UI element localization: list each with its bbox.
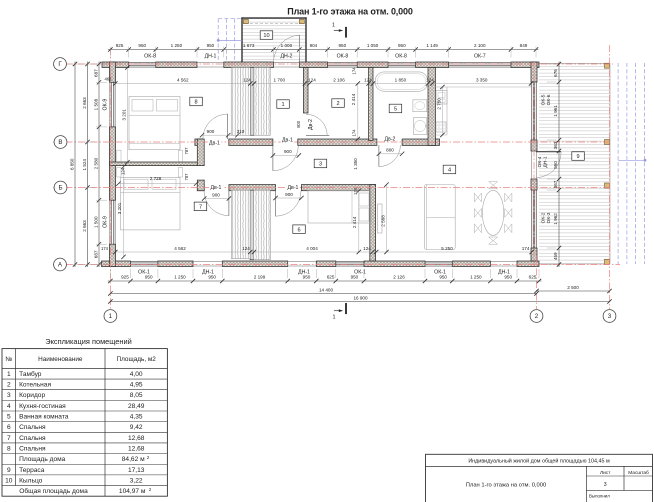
- svg-text:950: 950: [553, 161, 558, 169]
- svg-text:2 728: 2 728: [150, 176, 162, 181]
- axis bubble 2: [530, 310, 543, 323]
- svg-text:№: №: [5, 356, 12, 363]
- door Дв-2 boiler room: [306, 114, 329, 135]
- svg-text:4 562: 4 562: [177, 77, 189, 82]
- svg-text:ДН-1: ДН-1: [543, 156, 549, 167]
- svg-text:124: 124: [426, 77, 434, 82]
- svg-text:124: 124: [243, 77, 251, 82]
- svg-text:9: 9: [576, 154, 579, 160]
- svg-text:3: 3: [7, 392, 11, 399]
- svg-text:900: 900: [212, 192, 220, 197]
- washing machine: [413, 118, 427, 135]
- wall centreline axis right wall: [533, 62, 535, 266]
- svg-text:174: 174: [352, 129, 357, 137]
- svg-text:2 414: 2 414: [352, 216, 357, 228]
- svg-text:310: 310: [237, 129, 245, 134]
- dim 2 588 living: [380, 182, 388, 254]
- left wall window labels ОК-9: [103, 99, 109, 228]
- wall room7 east upper: [197, 139, 204, 166]
- svg-text:Масштаб: Масштаб: [628, 470, 649, 476]
- section mark 1 bottom: [333, 303, 347, 320]
- door ДН-1 bottom left: [193, 262, 222, 267]
- kitchen counter top: [435, 68, 530, 135]
- door Дв-1 vestibule to corridor: [273, 145, 298, 170]
- door Дв-1 room 7: [204, 191, 229, 216]
- built-in closet room 8: [231, 68, 250, 136]
- svg-text:1 250: 1 250: [470, 275, 482, 280]
- svg-text:787: 787: [184, 173, 189, 181]
- dim 2 750 kitchen: [436, 85, 444, 137]
- axis Г horizontal: [53, 63, 613, 65]
- svg-text:1: 1: [332, 23, 335, 29]
- corridor south wall: [197, 185, 375, 191]
- svg-text:904: 904: [310, 43, 318, 48]
- built-in closet room 7: [231, 190, 250, 259]
- terrace column top-right: [605, 63, 610, 68]
- small dims left wall: [101, 77, 112, 251]
- svg-text:ОК-9: ОК-9: [103, 216, 109, 228]
- axis А horizontal: [53, 264, 620, 266]
- svg-text:950: 950: [145, 275, 153, 280]
- room label 8: [190, 97, 203, 106]
- door Дв-2 bathroom: [379, 145, 401, 167]
- svg-text:3 350: 3 350: [476, 77, 488, 82]
- svg-text:ОК-6: ОК-6: [546, 94, 552, 105]
- svg-text:2 414: 2 414: [351, 93, 356, 105]
- svg-text:1: 1: [109, 313, 113, 320]
- svg-text:1 508: 1 508: [93, 98, 98, 110]
- svg-text:3: 3: [319, 162, 322, 168]
- svg-text:950: 950: [439, 275, 447, 280]
- svg-text:2 100: 2 100: [474, 43, 486, 48]
- drawing title: [287, 7, 413, 17]
- svg-text:Коридор: Коридор: [19, 392, 45, 399]
- wall room7 east lower: [197, 180, 204, 191]
- svg-text:Дв-1: Дв-1: [209, 140, 220, 146]
- svg-text:950: 950: [339, 43, 347, 48]
- svg-text:363: 363: [553, 141, 558, 149]
- closet partition wall upper: [250, 68, 254, 136]
- svg-text:900: 900: [284, 149, 292, 154]
- svg-text:124: 124: [242, 246, 250, 251]
- door ДН-1 to terrace swing: [536, 152, 561, 178]
- svg-text:950: 950: [398, 43, 406, 48]
- svg-text:6 850: 6 850: [69, 158, 74, 170]
- terrace column at axis В: [605, 140, 610, 145]
- closet partition wall lower: [250, 190, 254, 260]
- svg-text:7: 7: [7, 435, 11, 442]
- svg-text:ДН-2: ДН-2: [280, 54, 292, 60]
- svg-text:462: 462: [105, 77, 113, 82]
- svg-text:ОК-8: ОК-8: [395, 54, 407, 60]
- svg-text:900: 900: [207, 129, 215, 134]
- porch 10 floor: [241, 17, 306, 63]
- svg-text:174: 174: [352, 67, 357, 75]
- door Дв-1 room 6: [276, 191, 302, 217]
- wall bathroom east: [428, 68, 435, 146]
- svg-text:2 199: 2 199: [254, 275, 266, 280]
- svg-text:104,97 м: 104,97 м: [119, 488, 146, 495]
- svg-text:9,42: 9,42: [130, 424, 143, 431]
- dim 2 414 room 6: [352, 189, 361, 255]
- svg-text:1 050: 1 050: [367, 43, 379, 48]
- svg-text:10: 10: [263, 33, 269, 39]
- svg-text:1: 1: [333, 314, 336, 320]
- svg-text:1 700: 1 700: [274, 77, 286, 82]
- svg-text:3 201: 3 201: [121, 109, 126, 121]
- svg-text:174: 174: [101, 246, 109, 251]
- wall vestibule east: [304, 68, 309, 114]
- svg-text:800: 800: [296, 120, 301, 128]
- corridor north wall: [195, 139, 440, 145]
- door ОК-4/ДН-1 to terrace: [532, 151, 537, 179]
- dimension chain right wall openings: [547, 62, 561, 268]
- dim boiler door 800 vertical: [296, 120, 301, 128]
- exterior wall top (axis Г): [102, 62, 539, 68]
- svg-text:950: 950: [303, 275, 311, 280]
- svg-text:5: 5: [7, 414, 11, 421]
- entrance steps blue lines: [217, 19, 242, 62]
- dim 1 350 corridor: [353, 158, 358, 195]
- wall room6 east: [370, 185, 376, 261]
- room label 7: [194, 202, 207, 211]
- room label 4: [443, 165, 456, 174]
- axis 2 vertical: [536, 256, 538, 309]
- door ДН-1 bottom living: [490, 262, 517, 267]
- svg-text:4: 4: [7, 403, 11, 410]
- svg-text:Спальня: Спальня: [19, 435, 46, 442]
- svg-text:124: 124: [120, 167, 125, 175]
- bathtub: [375, 72, 428, 91]
- svg-text:Спальня: Спальня: [19, 424, 46, 431]
- svg-text:12,68: 12,68: [128, 445, 145, 452]
- room schedule table: [2, 337, 167, 496]
- window ОК-9 left lower: [110, 200, 115, 244]
- axis 3 vertical: [609, 45, 611, 309]
- svg-text:ОК-3: ОК-3: [546, 212, 552, 223]
- svg-text:3,22: 3,22: [130, 477, 143, 484]
- top wall opening labels: [144, 54, 486, 60]
- svg-text:Дв-1: Дв-1: [288, 185, 299, 191]
- svg-text:950: 950: [504, 275, 512, 280]
- svg-text:Индивидуальный жилой дом общей: Индивидуальный жилой дом общей площадью …: [468, 458, 610, 465]
- exterior wall bottom (axis А): [102, 261, 540, 267]
- svg-text:ОК-9: ОК-9: [103, 99, 109, 111]
- svg-text:849: 849: [520, 43, 528, 48]
- room label 5: [389, 104, 402, 113]
- svg-text:2 126: 2 126: [393, 275, 405, 280]
- svg-text:Дв-1: Дв-1: [282, 138, 293, 144]
- svg-text:950: 950: [138, 43, 146, 48]
- svg-text:625: 625: [327, 275, 335, 280]
- svg-text:3: 3: [608, 313, 612, 320]
- washbasin bathroom: [413, 100, 427, 112]
- svg-text:950: 950: [208, 275, 216, 280]
- svg-text:28,49: 28,49: [128, 403, 145, 410]
- svg-text:900: 900: [285, 192, 293, 197]
- svg-text:10: 10: [5, 477, 13, 484]
- svg-text:625: 625: [529, 275, 537, 280]
- window ОК-2/ОК-3 right: [531, 190, 536, 248]
- svg-text:Спальня: Спальня: [19, 445, 46, 452]
- window ОК-1 bottom room6: [336, 261, 364, 266]
- dim bathroom door 800: [377, 147, 405, 156]
- room label 6: [293, 225, 306, 234]
- svg-text:Экспликация помещений: Экспликация помещений: [45, 337, 131, 346]
- svg-text:Котельная: Котельная: [19, 382, 51, 389]
- svg-text:Ванная комната: Ванная комната: [19, 414, 69, 421]
- svg-text:ОК-4: ОК-4: [537, 156, 543, 167]
- svg-text:Площадь, м2: Площадь, м2: [117, 356, 157, 363]
- svg-text:4,95: 4,95: [130, 382, 143, 389]
- window ОК-9 left upper: [110, 82, 115, 127]
- section mark 1 top: [332, 23, 346, 38]
- svg-text:174: 174: [522, 246, 530, 251]
- room label 2: [332, 99, 345, 108]
- svg-text:17,13: 17,13: [128, 467, 145, 474]
- svg-text:367: 367: [553, 180, 558, 188]
- window ОК-8 top right: [388, 62, 416, 67]
- dimension 16 900: [108, 295, 612, 303]
- axis 1 vertical: [109, 48, 111, 309]
- dimension chain left windows: [93, 62, 107, 268]
- room label 1: [277, 100, 290, 109]
- dimension 2 500: [534, 285, 611, 293]
- bed room 6: [308, 191, 371, 223]
- svg-text:Дв-2: Дв-2: [308, 119, 314, 130]
- svg-text:1 500: 1 500: [93, 216, 98, 228]
- svg-text:2 750: 2 750: [436, 98, 441, 110]
- dim corridor door 900: [271, 149, 301, 158]
- room label 3: [314, 159, 327, 168]
- svg-text:9: 9: [7, 467, 11, 474]
- dimension 6 850 left: [69, 62, 83, 268]
- svg-text:950: 950: [351, 275, 359, 280]
- svg-text:В: В: [58, 139, 62, 146]
- porch inner dashed line: [245, 23, 303, 25]
- svg-text:4,35: 4,35: [130, 414, 143, 421]
- svg-text:925: 925: [121, 275, 129, 280]
- window ОК-8 top left: [129, 62, 156, 67]
- svg-text:Лист: Лист: [600, 470, 611, 476]
- nightstands room 7: [117, 168, 183, 178]
- svg-text:950: 950: [207, 43, 215, 48]
- nightstands room 8: [117, 150, 183, 161]
- svg-text:8: 8: [7, 445, 11, 452]
- svg-text:ДН-1: ДН-1: [205, 54, 217, 60]
- axis bubble А: [54, 258, 67, 271]
- svg-text:800: 800: [386, 147, 394, 152]
- svg-text:ОК-7: ОК-7: [474, 54, 486, 60]
- svg-text:1 350: 1 350: [353, 158, 358, 170]
- svg-text:4,00: 4,00: [130, 371, 143, 378]
- svg-text:4 562: 4 562: [174, 246, 186, 251]
- svg-text:1 524: 1 524: [82, 159, 87, 171]
- dining chairs: [474, 182, 512, 245]
- dimension chain bottom exterior: [108, 269, 542, 283]
- 10 porch label: [260, 31, 273, 40]
- svg-text:2: 2: [535, 313, 539, 320]
- svg-text:Наименование: Наименование: [38, 356, 83, 363]
- svg-text:6: 6: [7, 424, 11, 431]
- svg-text:4: 4: [448, 168, 451, 174]
- dim 2 414 boiler room: [351, 81, 360, 141]
- kitchen sink: [436, 91, 447, 105]
- svg-text:1: 1: [281, 102, 284, 108]
- terrace column bottom-right: [605, 259, 610, 264]
- room label 9 terrace: [572, 152, 585, 161]
- svg-text:124: 124: [308, 77, 316, 82]
- exterior wall left (axis 1): [110, 62, 116, 267]
- axis bubble 1: [104, 310, 117, 323]
- svg-text:676: 676: [553, 69, 558, 77]
- svg-text:5: 5: [394, 107, 397, 113]
- entrance door ДН-2 porch: [274, 63, 300, 68]
- window ОК-1 bottom living: [425, 261, 452, 266]
- svg-text:5 250: 5 250: [441, 246, 453, 251]
- interior vertical dim room 7: [117, 165, 126, 260]
- svg-text:Кухня-гостиная: Кухня-гостиная: [19, 403, 66, 410]
- svg-text:2: 2: [7, 382, 11, 389]
- svg-text:12,68: 12,68: [128, 435, 145, 442]
- axis Б horizontal: [53, 187, 611, 189]
- terrace edge blue guide lines: [618, 63, 646, 264]
- interior dim row lower: [113, 246, 534, 254]
- svg-text:687: 687: [93, 250, 98, 258]
- built-in closet vestibule: [254, 68, 270, 136]
- svg-text:8: 8: [194, 100, 197, 106]
- exterior wall right (axis 2): [531, 62, 537, 261]
- svg-text:2 588: 2 588: [380, 215, 385, 227]
- svg-text:ОК-8: ОК-8: [144, 54, 156, 60]
- svg-text:787: 787: [184, 147, 189, 155]
- svg-text:ОК-5: ОК-5: [541, 94, 547, 105]
- porch column left: [243, 19, 248, 23]
- window ОК-5/ОК-6 right: [531, 82, 536, 140]
- dimension chain top exterior: [108, 43, 539, 58]
- svg-text:16 900: 16 900: [353, 295, 367, 300]
- svg-text:1 250: 1 250: [174, 275, 186, 280]
- right wall opening labels: [537, 94, 552, 223]
- axis bubble В: [54, 136, 67, 149]
- window ОК-1 bottom room7: [131, 261, 158, 266]
- terrace 9 floor: [539, 63, 610, 264]
- svg-text:2 580: 2 580: [93, 157, 98, 169]
- dims 787: [184, 147, 189, 181]
- svg-text:7: 7: [199, 204, 202, 210]
- window ОК-8 top middle: [328, 62, 358, 67]
- svg-text:Тамбур: Тамбур: [19, 370, 42, 378]
- terrace column at axis Б: [605, 183, 610, 188]
- svg-text:1: 1: [7, 371, 11, 378]
- svg-text:3 201: 3 201: [117, 202, 122, 214]
- dim room6 door 900: [273, 192, 303, 200]
- sofa living room: [424, 185, 455, 250]
- svg-text:План 1-го этажа на отм. 0,000: План 1-го этажа на отм. 0,000: [466, 483, 546, 489]
- svg-text:Дв-1: Дв-1: [211, 185, 222, 191]
- dining table: [482, 190, 503, 235]
- interior door labels: [208, 119, 397, 191]
- dim room7 door 900: [202, 192, 231, 200]
- svg-text:1 250: 1 250: [171, 43, 183, 48]
- axis В horizontal: [53, 141, 611, 143]
- svg-text:459: 459: [553, 252, 558, 260]
- svg-text:6: 6: [297, 227, 300, 233]
- svg-text:Кыльцо: Кыльцо: [19, 477, 43, 484]
- built-in closet room 6: [254, 190, 271, 260]
- dims 174 boiler: [352, 67, 357, 137]
- svg-text:Общая площадь дома: Общая площадь дома: [19, 487, 88, 495]
- window ОК-7 top kitchen: [449, 62, 511, 67]
- dim room8 door 900/310: [200, 129, 245, 138]
- svg-text:1 673: 1 673: [243, 43, 255, 48]
- entrance door ДН-1 top: [197, 63, 224, 68]
- wall boiler-room east: [369, 68, 373, 141]
- axis bubble 3: [603, 310, 616, 323]
- svg-text:2 500: 2 500: [567, 285, 579, 290]
- dimension 14 400: [108, 288, 539, 296]
- dim 2 728 room 7: [116, 176, 198, 186]
- svg-text:2 663: 2 663: [82, 97, 87, 109]
- svg-text:2: 2: [336, 101, 339, 107]
- svg-text:2 106: 2 106: [333, 77, 345, 82]
- svg-text:1 962: 1 962: [553, 213, 558, 225]
- svg-text:ОК-2: ОК-2: [541, 212, 547, 223]
- svg-text:1 000: 1 000: [281, 43, 293, 48]
- svg-text:124: 124: [364, 77, 372, 82]
- porch column right: [299, 19, 304, 23]
- bed room 7: [121, 178, 181, 230]
- svg-text:1 961: 1 961: [553, 105, 558, 117]
- tv cabinet living room: [378, 204, 383, 233]
- svg-text:Выполнил: Выполнил: [589, 493, 610, 498]
- svg-text:687: 687: [93, 69, 98, 77]
- axis bubble Г: [54, 58, 67, 71]
- bottom wall opening labels: [138, 270, 510, 276]
- axis bubble Б: [54, 181, 67, 194]
- door ДН-2 porch swing: [274, 35, 300, 63]
- svg-text:Площадь дома: Площадь дома: [19, 456, 66, 463]
- title block stamp: [426, 454, 654, 502]
- svg-text:925: 925: [116, 43, 124, 48]
- svg-text:План 1-го этажа на отм. 0,000: План 1-го этажа на отм. 0,000: [287, 7, 413, 17]
- kitchen stove: [436, 122, 446, 132]
- svg-text:1 850: 1 850: [395, 77, 407, 82]
- svg-text:174: 174: [353, 187, 358, 195]
- bed room 8: [129, 97, 180, 150]
- door ДН-1 bottom room6: [288, 262, 317, 267]
- svg-text:Дв-2: Дв-2: [385, 136, 396, 142]
- svg-text:4 004: 4 004: [306, 246, 318, 251]
- svg-text:1 149: 1 149: [426, 43, 438, 48]
- svg-text:Б: Б: [58, 185, 62, 192]
- svg-text:124: 124: [363, 246, 371, 251]
- dim 124 wall junction: [120, 167, 125, 175]
- interior dim row upper: [113, 77, 533, 85]
- svg-text:2 663: 2 663: [82, 220, 87, 232]
- svg-text:3: 3: [604, 482, 607, 488]
- interior wall between rooms 8 and 7: [110, 162, 200, 166]
- svg-text:14 400: 14 400: [319, 288, 333, 293]
- svg-text:84,62 м: 84,62 м: [122, 456, 145, 463]
- door Дв-1 room 8: [203, 114, 228, 139]
- svg-text:Терраса: Терраса: [19, 467, 45, 474]
- svg-text:ОК-8: ОК-8: [337, 54, 349, 60]
- dimension chain left axes: [82, 62, 96, 268]
- interior vertical dim room 8: [121, 65, 129, 164]
- svg-text:8,05: 8,05: [130, 392, 143, 399]
